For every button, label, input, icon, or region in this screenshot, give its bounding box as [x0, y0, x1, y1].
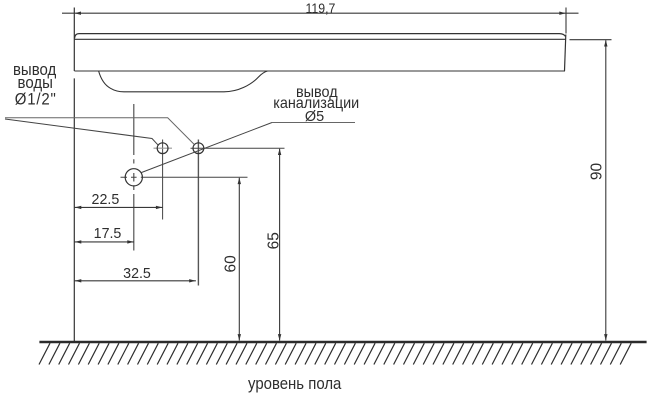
svg-text:воды: воды: [18, 75, 53, 93]
water hole right circle: [193, 143, 204, 154]
svg-text:65: 65: [265, 232, 282, 249]
svg-text:90: 90: [588, 163, 605, 181]
dimension line 17.5: [74, 241, 134, 243]
water hole left circle: [157, 143, 168, 154]
arrowhead left of 22.5: [75, 206, 82, 209]
extension line at 60 height: [121, 176, 248, 178]
wall reference line lower part: [73, 78, 75, 341]
floor hatching: [39, 343, 631, 364]
arrowhead top of 60: [238, 178, 241, 185]
svg-text:32.5: 32.5: [123, 266, 151, 282]
arrowhead left of 119,7: [75, 12, 82, 15]
floor line: [39, 341, 646, 344]
extension line at sink top for 90: [570, 39, 612, 41]
dimension line 65 vertical: [279, 149, 281, 341]
sink right edge: [565, 35, 566, 72]
svg-text:119,7: 119,7: [305, 0, 335, 16]
leader to left water hole: [5, 119, 158, 145]
arrowhead top of 65: [278, 149, 281, 156]
dimension line 90 vertical: [605, 40, 607, 340]
dimension line 60 vertical: [238, 178, 240, 341]
arrowhead right of 17.5: [127, 240, 134, 243]
crosshair of left water hole: [154, 147, 173, 149]
arrowhead top of 90: [604, 40, 607, 47]
svg-text:60: 60: [222, 255, 239, 273]
leader to right water hole: [5, 118, 194, 145]
dimension line 22.5: [74, 206, 162, 208]
sink second top line: [74, 38, 565, 40]
centerline of left water hole: [162, 140, 164, 220]
svg-text:22.5: 22.5: [92, 192, 120, 208]
basin bowl outline: [99, 71, 268, 92]
extension line right of sink top: [565, 8, 567, 34]
arrowhead bottom of 90: [604, 334, 607, 341]
arrowhead right of 32.5: [189, 279, 196, 282]
arrowhead right of 119,7: [559, 12, 566, 15]
sink top edge line: [75, 34, 566, 39]
arrowhead left of 32.5: [75, 279, 82, 282]
svg-text:Ø5: Ø5: [305, 109, 324, 125]
wall reference line upper part: [73, 8, 75, 72]
centerline of sewer hole (dash-dot): [133, 104, 135, 251]
arrowhead left of 17.5: [75, 240, 82, 243]
svg-text:уровень пола: уровень пола: [248, 375, 341, 393]
arrowhead bottom of 65: [278, 334, 281, 341]
arrowhead right of 22.5: [156, 206, 163, 209]
svg-text:Ø1/2": Ø1/2": [15, 91, 57, 109]
leader underline of sewer label: [272, 122, 355, 124]
arrowhead bottom of 60: [238, 334, 241, 341]
extension line at 65 height: [191, 147, 285, 149]
sink bottom front line: [74, 70, 565, 72]
centerline of right water hole: [197, 140, 199, 286]
dimension line 119,7: [62, 12, 579, 14]
leader to sewer hole: [141, 123, 272, 173]
svg-text:17.5: 17.5: [94, 226, 122, 242]
dimension line 32.5: [74, 280, 196, 282]
sewer hole circle: [125, 169, 142, 186]
